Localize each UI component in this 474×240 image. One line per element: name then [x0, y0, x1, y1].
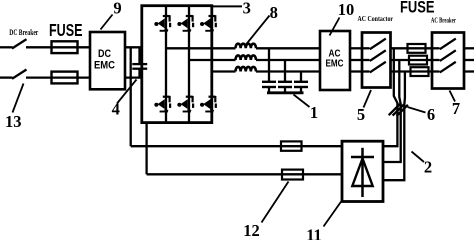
IGBT Q6 [200, 96, 216, 112]
capacitor C4 (DC link) [138, 47, 140, 64]
leader 2 [412, 152, 425, 163]
svg-text:2: 2 [424, 158, 432, 177]
leader 1 [294, 95, 310, 108]
wire [256, 59, 320, 61]
wire phase W [212, 70, 236, 72]
svg-text:5: 5 [357, 105, 365, 124]
wire drop DC+ to brake unit [130, 47, 132, 146]
brake unit box 11 [342, 141, 383, 201]
svg-text:DC: DC [98, 48, 111, 60]
breaker pole 3 [432, 70, 440, 72]
wire DC- input [0, 76, 13, 78]
wire [391, 47, 433, 49]
svg-text:8: 8 [270, 3, 278, 22]
wire [350, 47, 362, 49]
leader 7 [450, 91, 456, 102]
leader 6 [408, 107, 426, 113]
leader 13 [13, 84, 24, 113]
leader 4 [117, 80, 137, 104]
DC breaker pole (top blade) [12, 39, 27, 48]
fuse F6 (brake +) [281, 141, 302, 150]
wire output 1 [464, 47, 474, 49]
svg-text:10: 10 [338, 0, 355, 19]
svg-text:EMC: EMC [326, 58, 344, 70]
AC contactor box 5 [362, 33, 391, 88]
svg-text:FUSE: FUSE [49, 20, 83, 40]
leader 11 [324, 201, 342, 227]
inverter leg 2 [188, 6, 190, 123]
leader 8 [246, 16, 270, 45]
wire [391, 70, 433, 72]
svg-text:13: 13 [5, 112, 22, 131]
diode D1 [361, 148, 364, 197]
inverter module box 3 [142, 6, 212, 123]
IGBT Q1 [154, 15, 170, 31]
DC breaker pole (bottom blade) [12, 70, 27, 79]
capacitor C3 [300, 72, 302, 82]
contactor pole 3 [362, 70, 370, 72]
inductor L3 [236, 67, 256, 72]
wire output 2 [464, 59, 474, 61]
capacitor C2 [284, 60, 286, 82]
svg-text:12: 12 [243, 221, 260, 240]
svg-text:9: 9 [113, 0, 121, 18]
svg-text:6: 6 [427, 105, 435, 124]
svg-text:FUSE: FUSE [400, 0, 435, 17]
wire phase U [166, 47, 236, 49]
wire tap U to brake [383, 48, 397, 146]
IGBT Q3 [200, 15, 216, 31]
wire tap W to brake [383, 72, 405, 181]
leader 3 [213, 5, 242, 7]
IGBT Q2 [177, 15, 193, 31]
inductor L1 [236, 44, 256, 49]
wire [125, 76, 142, 78]
fuse F1 (DC+) [52, 41, 78, 53]
AC EMC filter box [320, 31, 350, 90]
leader 9 [101, 15, 113, 30]
fuse F3 (phase U) [408, 44, 426, 53]
capacitor C1 [268, 48, 270, 82]
leader 10 [330, 18, 340, 36]
common bar node [267, 91, 304, 94]
wire tap V to brake [383, 60, 401, 162]
svg-text:AC Breaker: AC Breaker [431, 17, 456, 25]
wire [26, 46, 90, 48]
IGBT Q4 [154, 96, 170, 112]
svg-text:11: 11 [306, 225, 322, 240]
inverter leg 1 [165, 6, 167, 123]
wire [256, 47, 320, 49]
wire output 3 [464, 70, 474, 72]
wire [256, 70, 320, 72]
svg-text:DC Breaker: DC Breaker [9, 28, 38, 37]
wire drop DC- to brake unit [145, 123, 147, 175]
wire brake DC+ bus [131, 145, 342, 147]
wire [26, 76, 90, 78]
IGBT Q5 [177, 96, 193, 112]
contactor pole 1 [362, 47, 370, 49]
svg-text:EMC: EMC [94, 60, 115, 72]
leader 5 [364, 90, 372, 108]
svg-text:7: 7 [452, 99, 460, 118]
breaker pole 2 [432, 59, 440, 61]
inductor L2 [236, 55, 256, 60]
leader 12 [262, 182, 289, 223]
svg-text:AC Contactor: AC Contactor [358, 15, 394, 23]
wire brake DC- bus [147, 173, 342, 175]
cable slash marks 6 [389, 104, 400, 115]
svg-text:4: 4 [112, 100, 120, 119]
wire [350, 59, 362, 61]
wire [391, 59, 433, 61]
svg-text:1: 1 [310, 103, 318, 122]
breaker pole 1 [432, 47, 440, 49]
AC breaker box 7 [432, 33, 464, 89]
fuse F7 (brake -) [282, 170, 303, 180]
fuse F4 (phase V) [409, 56, 427, 65]
DC EMC filter box [90, 32, 125, 89]
wire phase V [189, 59, 236, 61]
wire DC+ input [0, 46, 13, 48]
wire [350, 70, 362, 72]
wire [125, 46, 142, 48]
contactor pole 2 [362, 59, 370, 61]
svg-text:3: 3 [243, 0, 251, 17]
fuse F2 (DC-) [52, 72, 78, 84]
fuse F5 (phase W) [411, 67, 429, 76]
